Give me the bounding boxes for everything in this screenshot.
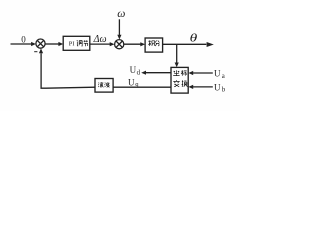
wire integrator to theta output	[163, 43, 207, 45]
svg-text:U: U	[214, 69, 221, 79]
svg-text:U: U	[214, 83, 221, 93]
wire PI block to summing junction S2	[90, 43, 111, 45]
block coordinate transform (坐标变换)	[171, 67, 188, 93]
block filter (滤波)	[95, 79, 113, 93]
glyph 调	[77, 40, 82, 46]
arrowhead into transform block top	[175, 63, 179, 68]
svg-text:ω: ω	[117, 8, 125, 20]
glyph 标	[181, 70, 187, 76]
label Ua	[214, 69, 225, 80]
arrowhead Ud pointing left	[141, 71, 146, 75]
arrowhead Ua into block right edge	[188, 71, 193, 75]
block PI regulator (PI调节)	[63, 36, 90, 50]
svg-text:a: a	[222, 73, 225, 80]
wire branch theta down to transform block	[176, 44, 178, 63]
wire S1 to PI block	[45, 43, 59, 45]
summing junction S1	[36, 39, 45, 48]
label Ud	[130, 65, 141, 76]
arrowhead into integrator	[140, 42, 145, 46]
glyph 积	[148, 40, 155, 46]
wire Ub input to transform block	[192, 86, 213, 88]
wire feedback from filter to below S1	[41, 53, 95, 88]
svg-text:U: U	[130, 65, 137, 75]
wire Ud output from transform block	[145, 72, 171, 74]
node label 0 (reference input)	[21, 35, 26, 45]
glyph 变	[173, 80, 179, 87]
label Uq	[128, 77, 139, 88]
minus sign at S1 feedback input	[34, 51, 37, 53]
arrowhead into PI block	[58, 42, 63, 46]
arrowhead into S2	[110, 42, 115, 46]
glyph 节	[84, 40, 88, 46]
glyph 换	[182, 80, 188, 87]
svg-text:d: d	[137, 69, 141, 76]
wire Uq output from transform block to filter	[113, 86, 171, 88]
glyph 滤	[98, 82, 103, 87]
wire Ua input to transform block	[192, 72, 213, 74]
svg-text:PI: PI	[69, 41, 75, 48]
svg-text:0: 0	[21, 35, 26, 45]
arrowhead up into S1 bottom	[39, 48, 43, 53]
label Ub	[214, 83, 226, 94]
arrowhead into summing junction S1	[31, 42, 36, 46]
wire omega down to S2	[118, 19, 120, 35]
arrowhead down into S2	[117, 35, 121, 40]
label delta-omega	[93, 34, 107, 45]
arrowhead theta output	[207, 42, 214, 47]
glyph 波	[105, 82, 110, 87]
glyph 坐	[173, 70, 179, 75]
glyph 分	[155, 40, 159, 46]
svg-text:b: b	[222, 87, 226, 94]
arrowhead Ub into block right edge	[188, 85, 193, 89]
node label omega (speed feedforward)	[117, 8, 125, 20]
block integrator (积分)	[145, 38, 163, 52]
svg-text:θ: θ	[190, 31, 198, 43]
node label theta	[190, 31, 198, 43]
svg-text:U: U	[128, 77, 135, 87]
wire input reference	[11, 43, 32, 45]
summing junction S2	[115, 40, 124, 49]
wire S2 to integrator block	[124, 43, 142, 45]
